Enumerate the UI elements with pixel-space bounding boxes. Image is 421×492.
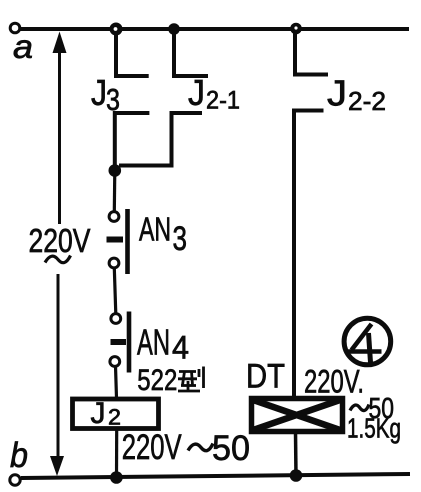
svg-text:220V.: 220V.	[304, 364, 364, 400]
relay coil J2 (box)	[73, 399, 159, 429]
electromagnet DT (box with X)	[252, 399, 343, 432]
contact J2-2 lower (moving) and wire down to DT	[294, 111, 324, 397]
pushbutton AN4	[110, 312, 129, 373]
dimension arrow 220V upper segment with up arrowhead	[53, 32, 67, 225]
label ~ (left)	[45, 256, 71, 263]
svg-text:220V: 220V	[122, 428, 182, 467]
svg-text:220V: 220V	[29, 222, 91, 259]
junction node (top rail, J2-2 branch)	[290, 23, 302, 35]
wire junction to AN3	[113, 170, 117, 212]
svg-text:2: 2	[108, 405, 121, 430]
svg-text:522: 522	[137, 364, 177, 397]
wire AN4 to J2 coil	[116, 366, 117, 398]
wire: bottom rail b	[21, 474, 410, 478]
svg-text:3: 3	[173, 220, 188, 258]
dimension arrow 220V lower segment with down arrowhead	[50, 274, 64, 476]
svg-text:4: 4	[172, 330, 189, 366]
svg-text:2-1: 2-1	[206, 87, 240, 115]
junction node (bottom rail, DT branch)	[290, 469, 303, 482]
svg-text:50: 50	[212, 429, 250, 468]
wire: top rail a	[20, 27, 409, 31]
contact J3 upper (fixed)	[116, 31, 149, 76]
svg-text:DT: DT	[246, 358, 285, 396]
label ~50 (DT rating)	[350, 405, 369, 411]
contact J2-1 lower (moving)	[119, 113, 202, 166]
contact J2-1 upper (fixed)	[174, 31, 208, 76]
wire J2 coil to bottom rail	[115, 429, 118, 477]
svg-text:1.5Kg: 1.5Kg	[347, 413, 401, 444]
junction node (bottom rail, coil branch)	[110, 471, 123, 484]
svg-text:J: J	[91, 72, 107, 113]
svg-text:AN: AN	[139, 211, 171, 248]
junction node (top rail, J2-1 branch)	[168, 23, 180, 35]
terminal a	[10, 23, 20, 33]
svg-text:J: J	[327, 73, 347, 114]
svg-text:2-2: 2-2	[348, 86, 386, 116]
svg-text:b: b	[10, 436, 28, 475]
svg-text:J: J	[188, 72, 205, 113]
pushbutton AN3	[107, 209, 128, 274]
wire AN3 to AN4	[114, 268, 116, 314]
svg-text:J: J	[91, 397, 106, 430]
svg-text:AN: AN	[137, 322, 170, 363]
terminal b	[10, 475, 20, 485]
wire DT to bottom rail	[294, 432, 298, 476]
callout marker circled 4	[344, 318, 391, 365]
junction node (parallel branches rejoin)	[109, 164, 122, 177]
contact J2-2 upper (fixed)	[295, 30, 328, 75]
junction node (top rail, J3 branch)	[111, 24, 121, 34]
svg-text:a: a	[13, 28, 33, 65]
contact J3 lower (moving)	[115, 113, 150, 168]
